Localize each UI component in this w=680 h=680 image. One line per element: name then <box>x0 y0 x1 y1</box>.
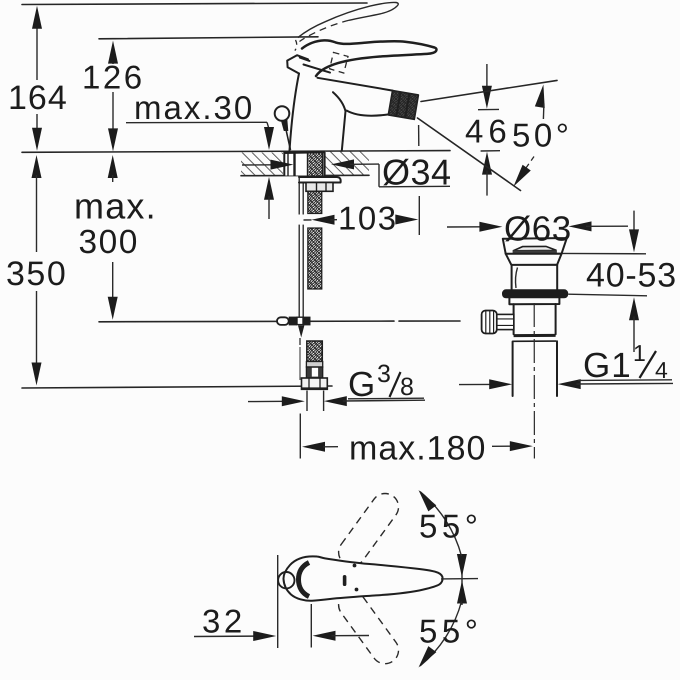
bottom view thick grip arc <box>299 563 310 597</box>
wire deck top line <box>22 151 450 153</box>
drain flange (black) <box>502 289 568 298</box>
wire deck bottom line <box>241 174 369 176</box>
deck cross-section hatched left <box>241 153 283 176</box>
label G 3/8 with arrows <box>248 360 425 406</box>
svg-text:50°: 50° <box>512 117 572 154</box>
dimension 50° <box>418 80 573 190</box>
drain tailpipe <box>512 342 514 397</box>
rod junction clamp <box>277 317 311 345</box>
dimension 46 <box>465 64 512 196</box>
drain top reference line (40-53) <box>557 252 646 254</box>
dimension 350 <box>6 155 67 386</box>
drain rod knob (knurled) <box>482 311 497 334</box>
flange bottom reference line (40-53) <box>568 294 647 296</box>
svg-text:32: 32 <box>202 603 246 640</box>
50° lower leg line <box>418 118 521 191</box>
svg-text:G1: G1 <box>583 346 632 385</box>
handle rear socket <box>287 55 308 73</box>
flexible supply hose (upper segment) <box>308 192 322 290</box>
55° arc upper <box>420 492 462 557</box>
dimension 103 <box>304 125 420 237</box>
faucet shank through deck <box>284 152 326 176</box>
bottom view pop-up knob circle <box>278 572 294 588</box>
svg-text:8: 8 <box>400 373 414 401</box>
svg-text:max.: max. <box>74 186 157 227</box>
dimension max.30 (deck thickness) <box>126 89 274 219</box>
svg-text:Ø63: Ø63 <box>504 210 572 249</box>
dimension 164 <box>8 6 68 151</box>
dimension 126 <box>82 41 145 152</box>
G3/8 tube extension stubs <box>306 391 308 412</box>
wire 126 reference line (handle rest height) <box>99 37 318 39</box>
svg-text:55°: 55° <box>419 613 482 650</box>
svg-text:4: 4 <box>655 357 668 383</box>
bottom view handle outline <box>283 556 442 600</box>
drain collar <box>506 254 562 265</box>
G3/8 hose end fitting <box>300 341 327 389</box>
spout <box>318 78 393 91</box>
label G1 1/4 with arrows <box>459 340 673 389</box>
pop-up rod vertical (upper) <box>299 177 303 317</box>
cartridge dashed box <box>330 52 348 73</box>
svg-text:Ø34: Ø34 <box>382 152 452 193</box>
dimension Ø63 <box>447 210 628 249</box>
aerator knurled rings <box>388 91 418 120</box>
drain plug cap <box>513 246 557 250</box>
bottom view: handle top view <box>278 487 482 671</box>
drain sub-lip <box>509 298 559 304</box>
dimension max.300 (hose length) <box>74 155 157 320</box>
svg-text:G: G <box>348 365 375 404</box>
wire 350 bottom reference line (supply level) <box>22 386 332 388</box>
dashed handle rotated down 55° <box>333 586 404 669</box>
svg-text:3: 3 <box>377 360 391 388</box>
50° upper leg line <box>421 80 557 101</box>
svg-text:300: 300 <box>79 224 139 261</box>
dimension 40-53 <box>586 211 677 352</box>
dimension max.180 <box>300 414 533 468</box>
dimension 32 <box>194 555 369 648</box>
drain body <box>514 304 556 334</box>
pop-up drain assembly <box>482 238 647 459</box>
drain coupling <box>514 334 556 337</box>
deck cross-section hatched right <box>325 152 369 176</box>
svg-text:350: 350 <box>6 255 67 293</box>
wire top reference line (handle max height) <box>22 3 367 5</box>
handle lever (rest position) <box>302 40 436 76</box>
body outline <box>290 74 300 151</box>
drain cylinder <box>511 265 557 290</box>
svg-text:103: 103 <box>338 200 398 237</box>
dimension Ø34 (shank) <box>242 152 452 193</box>
faucet body side view <box>275 2 437 150</box>
horizontal pop-up linkage rod <box>99 320 394 323</box>
svg-text:55°: 55° <box>419 508 482 545</box>
drain centerline <box>533 303 535 459</box>
svg-text:max.30: max.30 <box>134 89 254 126</box>
svg-text:max.180: max.180 <box>349 430 486 468</box>
svg-text:1: 1 <box>633 340 646 366</box>
pop-up knob <box>275 106 290 121</box>
svg-text:40-53: 40-53 <box>586 257 677 295</box>
55° arc lower <box>420 602 462 667</box>
mounting washer below deck <box>299 177 341 183</box>
crosshair at lever tip <box>441 578 478 580</box>
drain trapezoid top <box>503 238 567 254</box>
bottom view logo marks <box>343 575 347 586</box>
dashed handle rotated up 55° <box>333 488 404 571</box>
svg-text:46: 46 <box>465 113 512 150</box>
drain rod connector <box>497 314 514 329</box>
raised handle (dashed position) <box>298 2 398 37</box>
svg-text:164: 164 <box>8 79 68 117</box>
mounting nut <box>306 183 333 192</box>
handle neck seam <box>300 58 330 73</box>
